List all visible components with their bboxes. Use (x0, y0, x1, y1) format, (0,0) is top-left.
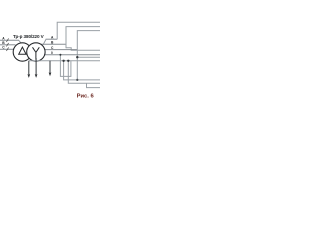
wire diagonal connector to phase A (43, 40, 46, 45)
junction dot bus tap 2 (67, 60, 69, 62)
wire drop to lower feeder 2 (64, 61, 100, 80)
transformer secondary circle with star (27, 43, 45, 61)
junction dot bus tap 1 (62, 60, 64, 62)
junction dot branch start (76, 56, 78, 58)
wire output phase A (to riser) (46, 38, 58, 40)
junction dot neutral drop (59, 54, 61, 56)
star (Y) winding symbol (33, 47, 40, 59)
transformer primary circle with delta (13, 43, 31, 61)
wire output phase C (42, 49, 77, 51)
load arrow shaft right (49, 61, 51, 73)
wire drop to lower feeder 3 (68, 61, 100, 83)
wire riser B with top run (66, 27, 100, 49)
svg-text:Рис. 6: Рис. 6 (77, 94, 95, 100)
svg-text:0: 0 (51, 51, 53, 55)
delta winding symbol (19, 47, 26, 54)
wire drop to lower feeder 1 (60, 55, 71, 77)
wire output phase B (41, 43, 66, 45)
slash tick on input C (6, 47, 8, 51)
arrowhead load left (28, 74, 31, 78)
wire star point drop (35, 58, 37, 74)
wire bottom-most feeder (87, 83, 101, 87)
wire input phase B (0, 44, 16, 46)
slash tick on input B (6, 43, 8, 47)
wire riser A (57, 22, 100, 39)
wire branch line to right edge (77, 56, 100, 58)
wire diagonal connector input A (19, 40, 22, 43)
wire riser C long vertical (77, 31, 100, 80)
wire output neutral 0 (42, 54, 100, 56)
junction dot riser C bottom (76, 79, 78, 81)
wire staircase B to mid line (66, 48, 100, 51)
slash tick on input A (6, 38, 8, 42)
wire input phase C (0, 48, 14, 50)
svg-text:Тр-р 380/220 V: Тр-р 380/220 V (13, 34, 45, 39)
load arrow shaft left (28, 61, 30, 74)
arrowhead load right (49, 73, 52, 77)
wire neutral bus under transformer (29, 60, 100, 62)
arrowhead star point (35, 74, 38, 78)
wire input phase A (0, 39, 19, 41)
